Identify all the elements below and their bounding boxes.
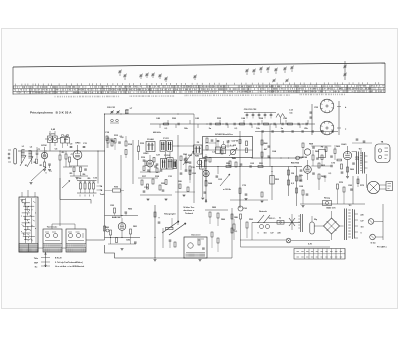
det rail y158 xyxy=(253,157,303,159)
trunk x133 xyxy=(132,140,134,184)
svg-text:EF41: EF41 xyxy=(76,142,82,145)
top coil humps xyxy=(276,114,285,118)
boxes top wires xyxy=(27,190,29,197)
grid stopper xyxy=(337,159,342,161)
svg-text:Entzerrer: Entzerrer xyxy=(191,234,200,237)
speaker wires xyxy=(366,174,368,188)
svg-text:ECH81 Misch/Osz: ECH81 Misch/Osz xyxy=(215,134,233,136)
IF can single T0 xyxy=(146,142,155,152)
svg-text:C33: C33 xyxy=(191,167,194,169)
af far right column xyxy=(231,208,233,258)
left stage two cluster xyxy=(107,138,109,143)
svg-text:Pri 1487 a: Pri 1487 a xyxy=(377,246,388,249)
AF driver tube xyxy=(304,166,312,174)
osc trimmers xyxy=(111,111,114,113)
det tube xyxy=(203,170,209,176)
svg-text:50µ: 50µ xyxy=(314,219,317,221)
svg-text:220: 220 xyxy=(277,233,280,235)
tall box contact rows xyxy=(21,200,35,242)
inter resistors xyxy=(59,155,61,160)
preamp trunk parts xyxy=(104,226,106,231)
lower resistor bank xyxy=(80,183,82,189)
mains fuse xyxy=(277,221,284,225)
cluster right mixer lower xyxy=(229,161,231,166)
mains X xyxy=(289,218,295,226)
phono socket xyxy=(375,144,390,163)
cluster below cans extra xyxy=(145,161,147,166)
trunk x104 xyxy=(104,114,106,240)
legend stem xyxy=(45,253,47,268)
bus parts xyxy=(164,123,169,125)
svg-text:110: 110 xyxy=(360,227,363,229)
fuse circle top xyxy=(368,219,374,225)
voltages table xyxy=(294,249,345,260)
power elko rect xyxy=(310,222,314,234)
IF can right single xyxy=(194,145,203,154)
band switch box tall xyxy=(19,197,38,252)
svg-text:C20 C21: C20 C21 xyxy=(107,107,116,109)
output tube xyxy=(343,151,351,159)
between tubes top cluster xyxy=(61,138,65,144)
IF can pair T2 xyxy=(161,158,167,169)
trunk x178 xyxy=(177,135,179,225)
main HT bus xyxy=(150,123,315,125)
small osc circles xyxy=(111,119,114,122)
pair boxes right of mixer xyxy=(216,147,221,154)
top strip band upper ticks xyxy=(16,82,379,85)
mixer internal parts xyxy=(206,138,208,143)
avc lower parts xyxy=(179,184,181,189)
svg-text:Klangregler: Klangregler xyxy=(164,213,176,216)
misc right verticals xyxy=(360,150,362,165)
af box xyxy=(184,237,207,258)
svg-text:Tonband: Tonband xyxy=(185,213,194,215)
IF mid parts xyxy=(185,158,187,163)
ratio det coil xyxy=(312,155,314,160)
switch elkos xyxy=(259,224,263,228)
far right det parts xyxy=(302,190,304,195)
strip trimmer pair A xyxy=(119,70,122,72)
avc zone parts xyxy=(180,156,182,161)
rail extra dots xyxy=(217,166,218,167)
det vertical x288 resistors xyxy=(288,167,290,197)
box3 keyboard xyxy=(66,229,86,252)
af bottom bus xyxy=(105,245,233,258)
top cap row xyxy=(244,112,276,114)
fuse circle bottom xyxy=(370,234,376,240)
output tube lower parts xyxy=(347,167,349,172)
svg-text:B Ho-N: B Ho-N xyxy=(55,258,62,260)
trunk x194 xyxy=(193,114,195,203)
preamp top parts xyxy=(114,208,116,213)
osc coil pack xyxy=(48,136,53,143)
svg-text:abnehmer u.: abnehmer u. xyxy=(183,210,195,212)
svg-text:EL41: EL41 xyxy=(342,143,348,146)
af mid parts xyxy=(209,212,211,217)
svg-text:m 100 Hz: m 100 Hz xyxy=(223,189,231,191)
strip trimmer C xyxy=(194,75,197,77)
svg-text:F3 F4: F3 F4 xyxy=(164,154,170,157)
top strip frame xyxy=(13,63,385,67)
svg-text:*220 V~: *220 V~ xyxy=(268,218,276,220)
power rail xyxy=(252,222,300,224)
right caps top xyxy=(356,138,359,140)
tall box bottom strip xyxy=(19,244,38,253)
tone small parts xyxy=(169,239,172,241)
box3 bottom strip xyxy=(66,244,86,248)
power lower wires xyxy=(241,246,331,248)
feedback parts xyxy=(337,184,339,189)
power left cluster xyxy=(238,206,243,211)
tube socket view upper xyxy=(320,99,334,113)
osc coil top xyxy=(125,110,128,114)
IF wires xyxy=(165,152,167,159)
avc arrow xyxy=(183,151,194,165)
svg-text:EF41: EF41 xyxy=(144,152,150,155)
svg-text:220: 220 xyxy=(360,215,363,217)
D mid extra xyxy=(321,155,323,160)
af right column parts xyxy=(211,232,213,237)
phono connect wire xyxy=(311,145,331,147)
switch diagonal arm xyxy=(31,167,46,181)
svg-text:C · 0,47 M: C · 0,47 M xyxy=(228,140,238,143)
antenna terminals xyxy=(8,153,10,155)
stage2 small parts xyxy=(143,159,146,161)
bank L wire xyxy=(60,178,91,204)
boxes inter wires xyxy=(86,239,105,241)
af misc vertical xyxy=(171,218,173,228)
tone verticals xyxy=(154,205,156,258)
hres mid left xyxy=(113,189,121,192)
antenna coil L2 xyxy=(28,151,31,159)
svg-text:0,1: 0,1 xyxy=(235,231,238,233)
stage2 tube xyxy=(147,160,154,167)
svg-text:Nf über Ton-: Nf über Ton- xyxy=(183,207,194,209)
res pair x126 xyxy=(125,141,127,146)
below mixer cluster xyxy=(197,160,202,165)
det vertical x272 xyxy=(271,167,273,201)
mains switch contacts xyxy=(258,215,264,223)
svg-text:0: 0 xyxy=(360,233,361,235)
left column box xyxy=(200,159,207,170)
fm det cluster xyxy=(304,149,310,155)
bridge rectifier xyxy=(324,218,340,234)
af preamp tube xyxy=(118,223,126,231)
lower rails left xyxy=(77,180,97,182)
trunk x240 xyxy=(239,131,241,208)
svg-text:0: 0 xyxy=(257,233,258,235)
svg-text:5: 5 xyxy=(45,173,46,175)
top left bus xyxy=(105,113,195,115)
det series parts xyxy=(226,166,231,168)
mixer tube small xyxy=(221,144,226,149)
svg-text:R26: R26 xyxy=(178,181,181,183)
chain x138 xyxy=(138,146,140,152)
strip lower trimmers D2 xyxy=(273,79,276,81)
svg-text:TrHe: TrHe xyxy=(34,258,38,260)
hf choke x312 xyxy=(311,104,313,135)
grid rail left xyxy=(18,150,105,152)
svg-text:R88: R88 xyxy=(234,217,237,219)
output tube parts xyxy=(341,164,343,169)
table entries xyxy=(297,252,343,258)
svg-text:L4 T5: L4 T5 xyxy=(49,133,55,136)
svg-text:EC92: EC92 xyxy=(41,145,47,147)
below mixer arrow xyxy=(220,174,230,186)
vertical x270 upper xyxy=(269,124,271,167)
svg-text:1M: 1M xyxy=(291,173,294,175)
coupling cap xyxy=(311,165,331,167)
svg-text:EABC80: EABC80 xyxy=(112,216,121,219)
top strip band text ticks xyxy=(14,85,385,94)
socket side line xyxy=(338,101,340,135)
tone arrows xyxy=(162,221,179,233)
speaker xyxy=(367,181,379,193)
coil tuning arrows xyxy=(20,156,26,167)
svg-text:R55 R56: R55 R56 xyxy=(291,163,300,165)
mixer box outline xyxy=(203,137,253,158)
tube V1 triode xyxy=(41,152,47,158)
det ground row xyxy=(230,199,268,201)
NFB pot xyxy=(323,201,332,206)
tall box inner verticals xyxy=(25,198,27,243)
mixer internal right resistors xyxy=(246,141,248,146)
bank lower ticks xyxy=(80,195,94,197)
V2 lower parts xyxy=(73,167,75,172)
tall box extra marks xyxy=(21,201,35,240)
IF below resistors xyxy=(141,180,143,185)
transformer taps xyxy=(365,156,368,168)
top strip band lines xyxy=(13,85,385,86)
svg-text:Klang: Klang xyxy=(324,198,331,200)
svg-text:127: 127 xyxy=(270,233,273,235)
det lower parts xyxy=(239,188,241,194)
box2 bottom strip xyxy=(43,244,62,248)
tube V2 pentode xyxy=(73,151,82,160)
strip trimmer E xyxy=(344,61,346,80)
IF can pair T1 xyxy=(160,141,166,152)
svg-text:F1 F2: F1 F2 xyxy=(163,138,169,140)
transformer tap wires xyxy=(355,214,359,238)
svg-text:F0 460: F0 460 xyxy=(147,138,154,141)
bank arrow xyxy=(62,181,70,189)
trunk x98 xyxy=(97,151,99,184)
svg-text:Netzsch: Netzsch xyxy=(259,210,267,213)
ferrite rod xyxy=(14,149,17,165)
trunk x121 xyxy=(120,155,122,218)
svg-text:B250 C75: B250 C75 xyxy=(326,208,336,210)
svg-text:5: 5 xyxy=(50,171,51,173)
det right column xyxy=(296,167,298,207)
mid dense cluster xyxy=(156,168,158,173)
osc pack top wires xyxy=(49,131,51,136)
svg-text:460 kHz: 460 kHz xyxy=(153,131,161,134)
mains transformer xyxy=(344,209,346,241)
output transformer xyxy=(356,152,358,175)
V2 top parts xyxy=(70,146,73,148)
svg-text:0,1: 0,1 xyxy=(120,136,123,138)
svg-text:L10: L10 xyxy=(212,152,215,154)
strip trimmer row B xyxy=(140,74,143,76)
svg-text:EABC80: EABC80 xyxy=(299,156,308,159)
speaker box xyxy=(386,182,393,191)
pot with arrow xyxy=(230,149,235,154)
pilot lamp xyxy=(286,238,291,243)
svg-text:Si 0,5: Si 0,5 xyxy=(371,243,376,245)
svg-text:127: 127 xyxy=(360,221,363,223)
svg-text:L · 4/3: L · 4/3 xyxy=(230,144,237,147)
second bus xyxy=(255,131,338,133)
top strip band dividers xyxy=(30,85,370,95)
svg-text:Prinzipschema B 3 K 53 A: Prinzipschema B 3 K 53 A xyxy=(30,111,72,115)
topleft cluster parts xyxy=(106,136,108,141)
det bus xyxy=(196,166,302,168)
input caps xyxy=(36,152,39,154)
svg-text:C50 C51 C52: C50 C51 C52 xyxy=(244,109,257,111)
box2 keyboard xyxy=(43,229,62,252)
tall box contact dots xyxy=(20,199,23,202)
svg-text:kHz: kHz xyxy=(64,139,68,141)
primary winding xyxy=(300,214,302,232)
bus drop stubs xyxy=(160,124,300,128)
vertical x262 upper xyxy=(261,132,263,167)
driver parts xyxy=(299,176,301,181)
antenna coil L1 xyxy=(21,150,24,158)
tube socket view lower xyxy=(320,121,334,135)
mixer interior extra xyxy=(217,140,220,142)
right edge vertical xyxy=(382,204,384,240)
svg-text:110: 110 xyxy=(263,233,266,235)
svg-text:Uo n mit Ant. u. im UKW-Bereic: Uo n mit Ant. u. im UKW-Bereich xyxy=(55,265,85,268)
svg-text:2. Teil n(n-Ton/Tonband/Röhre): 2. Teil n(n-Ton/Tonband/Röhre) xyxy=(55,262,83,264)
mid vertical x206 xyxy=(205,168,207,203)
af preamp parts xyxy=(110,230,112,235)
top strip band lower text xyxy=(55,94,345,98)
strip trimmer row D xyxy=(246,69,249,71)
V1 bias parts xyxy=(44,162,46,167)
